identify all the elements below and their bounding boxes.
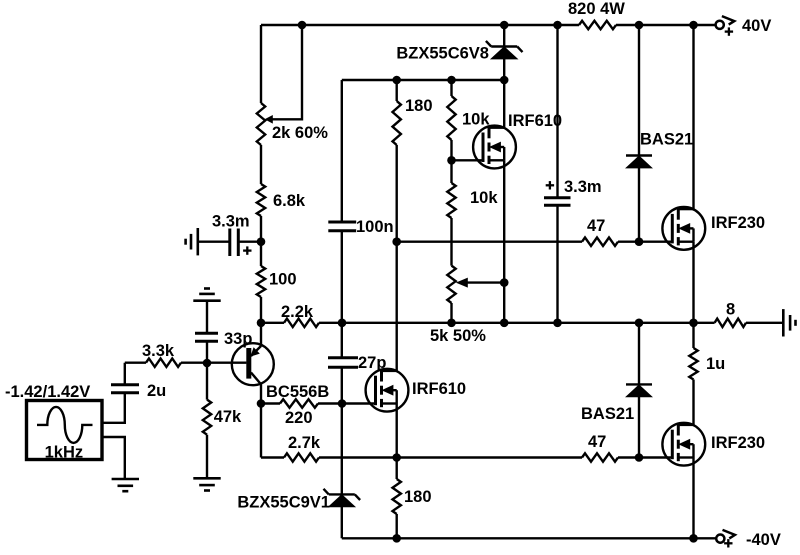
svg-text:180: 180 [404,488,432,506]
svg-text:3.3k: 3.3k [142,342,175,360]
svg-text:27p: 27p [358,354,386,372]
svg-text:IRF230: IRF230 [711,434,765,452]
svg-text:220: 220 [285,409,313,427]
svg-text:10k: 10k [462,111,490,129]
svg-text:IRF610: IRF610 [412,380,466,398]
svg-text:3.3m: 3.3m [564,178,602,196]
svg-text:BZX55C6V8: BZX55C6V8 [396,45,489,63]
svg-text:2k 60%: 2k 60% [272,124,328,142]
svg-text:820 4W: 820 4W [568,0,625,18]
svg-text:47: 47 [588,433,606,451]
svg-text:10k: 10k [470,189,498,207]
svg-text:1kHz: 1kHz [45,444,84,462]
svg-text:180: 180 [405,97,433,115]
svg-text:2u: 2u [147,382,166,400]
svg-text:-1.42/1.42V: -1.42/1.42V [5,383,90,401]
svg-text:100n: 100n [356,218,394,236]
svg-text:BAS21: BAS21 [581,405,634,423]
svg-text:47: 47 [587,217,605,235]
svg-text:BZX55C9V1: BZX55C9V1 [237,494,330,512]
svg-text:IRF610: IRF610 [508,112,562,130]
svg-text:5k 50%: 5k 50% [430,327,486,345]
svg-text:100: 100 [269,271,297,289]
svg-text:BC556B: BC556B [266,383,329,401]
svg-text:1u: 1u [706,355,725,373]
svg-text:8: 8 [726,301,735,319]
svg-text:3.3m: 3.3m [212,213,250,231]
svg-text:33p: 33p [224,330,252,348]
svg-text:-40V: -40V [746,531,781,549]
svg-text:IRF230: IRF230 [711,214,765,232]
svg-text:BAS21: BAS21 [640,131,693,149]
svg-text:40V: 40V [742,17,771,35]
svg-text:47k: 47k [214,408,242,426]
svg-text:6.8k: 6.8k [273,192,306,210]
svg-text:2.2k: 2.2k [281,303,314,321]
svg-text:2.7k: 2.7k [288,434,321,452]
